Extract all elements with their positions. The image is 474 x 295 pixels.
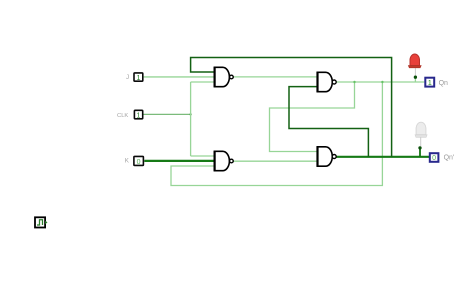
input CLK box [134,110,142,119]
wire Q feedback down from node (354.5,82) [270,82,355,152]
svg-text:Qn': Qn' [444,154,455,161]
wire CLK input horizontal [144,113,191,115]
node B junction dot [418,146,421,149]
LED D2 (grey, off) [415,122,427,137]
wire Q' feedback up to U1 [191,58,392,157]
LED D1 lead [414,68,416,76]
node A junction dot [414,76,417,79]
node LED1 stub [414,77,416,82]
input J box [134,73,143,82]
input K box [134,156,144,166]
svg-text:1: 1 [428,80,432,87]
wire Q' feedback up to U3 [289,87,368,157]
LED D2 lead [420,137,422,146]
LED D1 (red, lit) [408,54,421,68]
wire U2 output to U4 [233,160,317,162]
node Q junction 2 [381,81,383,83]
svg-text:Qn: Qn [439,80,448,87]
output Qn' box [430,153,439,162]
svg-text:CLK: CLK [117,113,128,119]
wire CLK branch to U2 pin1 [191,155,215,157]
wire K input to U2 [144,160,214,162]
wire J input to U1 [144,76,215,78]
wire CLK vertical bus [190,82,192,156]
node Q junction 1 [353,81,355,83]
nand gate U3 [318,72,337,93]
node CLK junction [189,113,191,115]
svg-text:K: K [125,158,130,165]
nand gate U4 [318,146,337,167]
wire Q feedback down from node (382.4,82) to U2 [171,82,382,186]
svg-text:J: J [126,74,129,81]
nand gate U2 [215,151,234,172]
wire CLK branch to U1 pin3 [191,81,215,83]
svg-text:1: 1 [136,75,140,82]
output Qn box [425,78,434,87]
nand gate U1 [215,67,234,88]
node LED2 stub [419,148,421,157]
wire Q net U3 output to output box [336,81,424,83]
svg-text:1: 1 [137,112,141,119]
wire Q' net U4 output to output box [336,156,429,158]
svg-text:0: 0 [432,155,436,162]
clock source CLK2 [35,217,48,227]
svg-text:0: 0 [137,159,141,166]
wire U1 output to U3 [233,76,317,78]
